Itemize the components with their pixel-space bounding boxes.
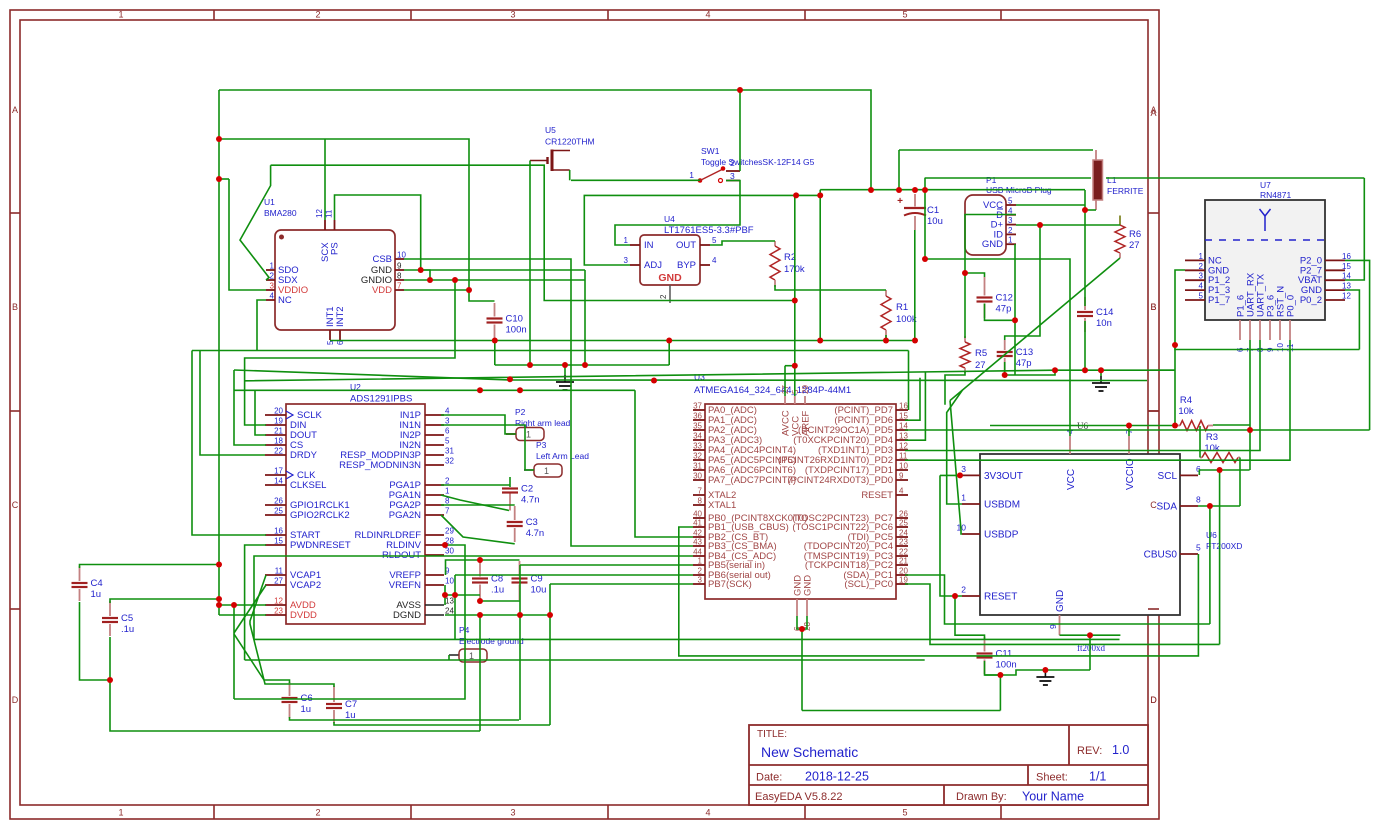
svg-text:C1: C1 [927, 205, 939, 216]
svg-text:31: 31 [693, 462, 702, 471]
wire lean USBDP [950, 401, 962, 535]
capacitor C4 1u [79, 566, 81, 581]
svg-text:5: 5 [445, 437, 450, 446]
wire y390 [234, 389, 635, 391]
wire AVCC tie [785, 365, 795, 367]
svg-text:U7: U7 [1260, 180, 1271, 190]
svg-text:40: 40 [693, 510, 702, 519]
svg-text:12: 12 [274, 597, 283, 606]
svg-text:14: 14 [899, 422, 908, 431]
svg-text:2: 2 [315, 808, 320, 818]
svg-text:2: 2 [1199, 262, 1204, 271]
svg-text:7: 7 [698, 487, 703, 496]
IC U2 ADS1291IPBS [286, 404, 425, 624]
wire VCAP2 diag [234, 585, 266, 633]
svg-text:22: 22 [899, 548, 908, 557]
wire shallow W1 [234, 370, 1147, 381]
svg-text:R3: R3 [1206, 432, 1218, 443]
wire ADJ net [584, 190, 820, 265]
svg-text:42: 42 [693, 529, 702, 538]
svg-text:+: + [897, 196, 903, 207]
wire CSB to CS_BMA [404, 259, 693, 546]
svg-text:3: 3 [1199, 272, 1204, 281]
svg-text:BYP: BYP [677, 260, 696, 271]
resistor R2 170k [774, 241, 776, 246]
wire x520 pb5 [519, 565, 521, 720]
wire U3 VCC net [794, 195, 796, 396]
junction dots [216, 136, 222, 142]
svg-text:3: 3 [510, 10, 515, 20]
svg-text:10: 10 [1276, 343, 1285, 352]
svg-text:CR1220THM: CR1220THM [545, 137, 595, 147]
svg-text:DVDD: DVDD [290, 610, 317, 621]
wire C13 top link [1005, 225, 1040, 340]
svg-text:13: 13 [899, 432, 908, 441]
wire x455 pb6 [454, 575, 456, 640]
wire SCL down [1219, 470, 1221, 644]
svg-text:21: 21 [274, 427, 283, 436]
resistor R5 27 [964, 336, 966, 342]
svg-text:ATMEGA164_324_644_1284P-44M1: ATMEGA164_324_644_1284P-44M1 [694, 385, 851, 396]
svg-text:C11: C11 [996, 649, 1013, 660]
svg-text:19: 19 [274, 417, 283, 426]
svg-text:REV:: REV: [1077, 745, 1102, 757]
wire PB5 [520, 564, 693, 566]
svg-text:FT200XD: FT200XD [1206, 541, 1242, 551]
svg-text:17: 17 [274, 467, 283, 476]
svg-text:16: 16 [899, 402, 908, 411]
svg-text:5: 5 [902, 10, 907, 20]
svg-text:26: 26 [274, 497, 283, 506]
wire C1 bottom green [914, 230, 916, 341]
svg-text:8: 8 [397, 272, 402, 281]
svg-text:4: 4 [712, 256, 717, 265]
svg-text:37: 37 [693, 402, 702, 411]
svg-text:1u: 1u [91, 589, 102, 600]
IC U3 ATMEGA164_324_644_1284P-44M1 [705, 404, 896, 599]
svg-text:B: B [1150, 302, 1156, 312]
svg-text:1: 1 [961, 493, 966, 503]
svg-text:B: B [12, 302, 18, 312]
svg-text:USBDM: USBDM [984, 500, 1020, 511]
wire x192 START [192, 351, 266, 536]
wire SDA net [905, 575, 1210, 624]
wire P1 GND down [1014, 244, 1016, 375]
wire PD7 up [908, 351, 910, 411]
wire R3 left up [1199, 426, 1201, 458]
svg-text:1: 1 [118, 10, 123, 20]
wire SDX diag [240, 165, 271, 280]
svg-text:6: 6 [445, 427, 450, 436]
svg-text:100n: 100n [506, 325, 527, 336]
svg-text:SCL: SCL [1158, 471, 1178, 482]
svg-text:24: 24 [899, 529, 908, 538]
svg-text:CSB: CSB [372, 254, 392, 265]
svg-text:11: 11 [275, 567, 284, 576]
svg-text:10u: 10u [927, 216, 943, 227]
svg-text:P2: P2 [515, 407, 526, 417]
svg-text:10: 10 [899, 462, 908, 471]
svg-text:CBUS0: CBUS0 [1144, 550, 1178, 561]
svg-text:Toggle SwitchesSK-12F14 G5: Toggle SwitchesSK-12F14 G5 [701, 157, 815, 167]
wire C5 bottom [110, 637, 480, 731]
wire IN1P to P2 [441, 415, 516, 434]
svg-text:PGA2N: PGA2N [389, 510, 421, 521]
svg-text:2: 2 [730, 158, 735, 168]
svg-text:R1: R1 [896, 302, 908, 313]
wire y710 [802, 710, 1000, 712]
svg-text:5: 5 [1199, 292, 1204, 301]
svg-text:19: 19 [899, 576, 908, 585]
wire SDA right [1198, 505, 1240, 507]
wire D- net [965, 215, 1016, 339]
wire C14 bottom [1084, 321, 1086, 370]
ferrite bead L1 [1095, 150, 1097, 210]
svg-text:1: 1 [544, 466, 549, 476]
wire VCC5 P1 [1016, 204, 1085, 206]
wire GNDIO8 [404, 279, 585, 281]
svg-text:4: 4 [899, 487, 904, 496]
wire x820 drop [819, 195, 821, 340]
svg-text:25: 25 [274, 507, 283, 516]
wire R4 right [1213, 424, 1250, 426]
wire x899 drop [898, 150, 900, 190]
svg-text:26: 26 [899, 510, 908, 519]
wire CS_BT link [635, 390, 693, 537]
wire UART_RX vert [1249, 340, 1251, 470]
wire x669 link [668, 341, 670, 366]
capacitor C3 4.7n [514, 506, 516, 520]
svg-text:A: A [12, 105, 18, 115]
wire PGA2N diag [441, 515, 515, 544]
svg-text:P0_0: P0_0 [1286, 295, 1297, 317]
wire C13 bottom [1005, 362, 1055, 375]
wire y639 [254, 638, 1120, 640]
svg-text:3: 3 [270, 282, 275, 291]
wire PB6 [455, 574, 693, 576]
svg-text:1: 1 [1008, 236, 1013, 245]
svg-text:VCCIO: VCCIO [1125, 458, 1136, 490]
svg-text:27: 27 [1129, 240, 1140, 251]
wire U7 gnd bottom [1175, 345, 1359, 350]
svg-text:CLKSEL: CLKSEL [290, 480, 326, 491]
svg-text:12: 12 [899, 442, 908, 451]
wire PD6 up [905, 378, 920, 421]
capacitor C8 .1u [479, 561, 481, 577]
svg-text:1: 1 [689, 170, 694, 180]
svg-text:VREFN: VREFN [389, 580, 421, 591]
svg-text:36: 36 [693, 412, 702, 421]
wire SDA drop [1209, 506, 1211, 624]
wire y165 to x544 [271, 165, 795, 300]
svg-text:RESET: RESET [861, 490, 893, 501]
svg-text:Electrode ground: Electrode ground [459, 636, 524, 646]
svg-text:AREF: AREF [801, 410, 812, 436]
svg-text:1.0: 1.0 [1112, 743, 1129, 757]
svg-text:14: 14 [274, 477, 283, 486]
svg-text:100n: 100n [996, 660, 1017, 671]
wire VDDIO [229, 179, 266, 290]
svg-text:C14: C14 [1096, 307, 1113, 318]
wire C4 bottom [80, 602, 111, 680]
wire y660 [245, 659, 925, 661]
wire D+ to R6 [1016, 224, 1120, 226]
svg-text:3: 3 [698, 576, 703, 585]
svg-text:VDD: VDD [372, 285, 392, 296]
wire RLDINV net [234, 545, 465, 699]
wire reset down [955, 596, 985, 639]
wire C5 top [110, 599, 219, 603]
svg-text:32: 32 [445, 457, 454, 466]
svg-text:2: 2 [445, 477, 450, 486]
svg-text:C5: C5 [121, 613, 133, 624]
svg-text:35: 35 [693, 422, 702, 431]
svg-text:8: 8 [698, 497, 703, 506]
svg-text:31: 31 [445, 447, 454, 456]
resistor R1 100k [885, 290, 887, 296]
svg-text:27: 27 [274, 577, 283, 586]
IC U7 RN4871 [1205, 200, 1325, 320]
svg-text:22: 22 [274, 447, 283, 456]
wire GND9 [404, 269, 585, 271]
wire SCX up [324, 139, 326, 220]
wire R5 jog [945, 372, 965, 405]
wire PD3 row [905, 340, 1260, 451]
svg-text:33: 33 [693, 442, 702, 451]
svg-text:INT2: INT2 [335, 306, 346, 327]
IC U6 FT200XD [980, 454, 1180, 615]
wire gnd y365 [495, 364, 669, 366]
svg-text:4: 4 [270, 292, 275, 301]
svg-text:PA7_(ADC7PCINT7): PA7_(ADC7PCINT7) [708, 475, 796, 486]
wire U3 gnd tie [797, 616, 807, 629]
svg-text:12: 12 [315, 209, 324, 218]
wire C6 diag [234, 634, 290, 683]
svg-text:34: 34 [693, 432, 702, 441]
svg-text:1: 1 [445, 487, 450, 496]
wire U7 gnd13 [1345, 290, 1359, 350]
svg-text:8: 8 [1196, 495, 1201, 505]
svg-text:D: D [1150, 695, 1157, 705]
svg-text:2: 2 [270, 272, 275, 281]
svg-text:10: 10 [397, 251, 406, 260]
wire VBAT y178b [1106, 177, 1364, 179]
wire y370 left piece [1150, 369, 1175, 371]
svg-text:GND: GND [1055, 590, 1066, 612]
wire R3 drop [1239, 458, 1241, 507]
svg-text:47p: 47p [996, 304, 1012, 315]
wire PB7 [550, 583, 693, 585]
resistor R3 10k [1200, 457, 1202, 459]
svg-text:2: 2 [698, 567, 703, 576]
svg-text:Drawn By:: Drawn By: [956, 791, 1007, 803]
ground right mid [1100, 370, 1102, 376]
svg-text:A: A [1150, 108, 1156, 118]
svg-text:C12: C12 [996, 293, 1013, 304]
svg-text:NC: NC [278, 295, 292, 306]
svg-text:LT1761ES5-3.3#PBF: LT1761ES5-3.3#PBF [664, 225, 754, 236]
svg-text:3: 3 [961, 464, 966, 474]
svg-text:2018-12-25: 2018-12-25 [805, 770, 869, 784]
svg-text:11: 11 [325, 209, 334, 218]
wire C7 bottom [334, 722, 550, 725]
wire x480 down [479, 615, 481, 731]
svg-text:OUT: OUT [676, 240, 696, 251]
wire PD4 up [905, 372, 925, 440]
resistor R6 27 [1119, 216, 1121, 226]
wire PGA1P [441, 484, 510, 486]
svg-text:21: 21 [899, 557, 908, 566]
svg-text:24: 24 [445, 607, 454, 616]
svg-text:15: 15 [1342, 262, 1351, 271]
svg-text:U1: U1 [264, 197, 275, 207]
capacitor C7 1u [333, 686, 335, 702]
wire CBUS0 net [679, 527, 1199, 656]
svg-text:7: 7 [397, 282, 402, 291]
svg-text:43: 43 [693, 538, 702, 547]
wire R1 bottom [885, 335, 887, 341]
capacitor C12 47p [984, 277, 986, 296]
svg-text:U4: U4 [664, 214, 675, 224]
wire PS net [335, 195, 421, 270]
svg-text:XTAL1: XTAL1 [708, 500, 736, 511]
svg-text:RESET: RESET [984, 592, 1017, 603]
wire C12 bottom [985, 304, 1016, 321]
svg-text:5: 5 [712, 236, 717, 245]
svg-text:3: 3 [510, 808, 515, 818]
svg-text:P3: P3 [536, 440, 547, 450]
svg-text:16: 16 [1342, 252, 1351, 261]
svg-text:10k: 10k [1178, 406, 1194, 417]
wire R2 to R1 [775, 285, 886, 290]
svg-text:3: 3 [730, 171, 735, 181]
wire DRDY [200, 351, 265, 456]
svg-text:4.7n: 4.7n [526, 528, 545, 539]
wire IN1N to P3 [441, 425, 534, 470]
svg-text:2: 2 [961, 585, 966, 595]
resistor R4 10k [1175, 425, 1180, 427]
wire gnd drop [999, 675, 1001, 711]
svg-text:47p: 47p [1016, 358, 1032, 369]
svg-text:EasyEDA V5.8.22: EasyEDA V5.8.22 [755, 791, 842, 803]
svg-text:4: 4 [445, 407, 450, 416]
svg-text:P1_7: P1_7 [1208, 295, 1230, 306]
svg-text:P0_2: P0_2 [1300, 295, 1322, 306]
IC U1 BMA280 [275, 230, 395, 330]
wire x495 link [494, 341, 496, 366]
wire CS up x234 [234, 370, 266, 445]
svg-text:Your Name: Your Name [1022, 790, 1084, 804]
svg-text:10n: 10n [1096, 318, 1112, 329]
wire SW pin2 up [739, 90, 741, 171]
IC U4 LT1761ES5-3.3#PBF [640, 235, 700, 285]
capacitor C2 4.7n [509, 493, 511, 511]
svg-text:1: 1 [270, 262, 275, 271]
wire y139 to C10 [219, 139, 495, 301]
capacitor C11 100n [984, 637, 986, 652]
svg-text:RESP_MODNIN3N: RESP_MODNIN3N [339, 460, 421, 471]
svg-text:5: 5 [1196, 543, 1201, 553]
wire c8c9 bottom [480, 600, 520, 602]
svg-text:VCAP2: VCAP2 [290, 580, 321, 591]
wire VCCIO drop [1128, 426, 1130, 437]
svg-text:.1u: .1u [491, 585, 504, 596]
svg-text:C7: C7 [345, 699, 357, 710]
svg-text:100k: 100k [896, 314, 917, 325]
svg-text:15: 15 [899, 412, 908, 421]
svg-text:ADS1291IPBS: ADS1291IPBS [350, 394, 412, 405]
wire C11 bottom [985, 661, 1091, 675]
svg-text:GND: GND [658, 272, 682, 284]
svg-text:C: C [1150, 500, 1157, 510]
svg-text:2: 2 [659, 294, 668, 299]
wire C4 top [80, 565, 220, 569]
wire VREFP [446, 560, 520, 575]
svg-text:Sheet:: Sheet: [1036, 772, 1068, 784]
svg-text:1: 1 [526, 430, 531, 440]
wire VCC vertical x1085 [1084, 190, 1086, 306]
svg-text:FERRITE: FERRITE [1107, 186, 1144, 196]
svg-text:1/1: 1/1 [1089, 770, 1106, 784]
wire C11 net [940, 474, 962, 476]
svg-text:DGND: DGND [393, 610, 421, 621]
svg-text:Left Arm Lead: Left Arm Lead [536, 451, 589, 461]
svg-text:16: 16 [274, 527, 283, 536]
svg-text:GND: GND [982, 239, 1003, 250]
svg-text:C: C [12, 500, 19, 510]
svg-text:Date:: Date: [756, 772, 782, 784]
wire SCL row [905, 584, 1220, 644]
svg-text:1: 1 [624, 236, 629, 245]
wire x234 lower [233, 605, 235, 699]
svg-text:20: 20 [274, 407, 283, 416]
svg-text:5: 5 [1008, 197, 1013, 206]
svg-text:5: 5 [902, 808, 907, 818]
wire PD2 row [905, 340, 1290, 460]
svg-text:12: 12 [1342, 292, 1351, 301]
svg-text:7: 7 [445, 507, 450, 516]
wire VDD7 [404, 289, 469, 291]
svg-text:C10: C10 [506, 314, 523, 325]
svg-text:29: 29 [801, 385, 810, 394]
svg-text:20: 20 [899, 567, 908, 576]
capacitor C6 1u [289, 682, 291, 696]
wire VCAP1 diag [250, 575, 334, 687]
wire DOUT up [255, 390, 266, 435]
wire U6 gnd down [1089, 635, 1091, 670]
wire OUT to R2 [710, 241, 775, 245]
wire U5 net x530 [529, 161, 531, 366]
wire NC pin4 [257, 300, 266, 351]
svg-text:BMA280: BMA280 [264, 208, 297, 218]
svg-text:18: 18 [274, 437, 283, 446]
svg-text:4: 4 [705, 808, 710, 818]
svg-text:New Schematic: New Schematic [761, 744, 858, 760]
svg-text:U6: U6 [1206, 530, 1217, 540]
svg-text:(SCL)_PC0: (SCL)_PC0 [844, 579, 893, 590]
wire VBAT y178a [925, 177, 1091, 179]
wire 3v3 drop [940, 475, 962, 596]
svg-text:PB7(SCK): PB7(SCK) [708, 579, 752, 590]
svg-text:1u: 1u [301, 704, 312, 715]
svg-text:Right arm lead: Right arm lead [515, 418, 571, 428]
svg-text:R4: R4 [1180, 395, 1192, 406]
wire U7 gnd2 [1175, 270, 1185, 426]
svg-text:4: 4 [1199, 282, 1204, 291]
svg-text:U5: U5 [545, 125, 556, 135]
svg-text:DRDY: DRDY [290, 450, 318, 461]
svg-text:C13: C13 [1016, 347, 1033, 358]
